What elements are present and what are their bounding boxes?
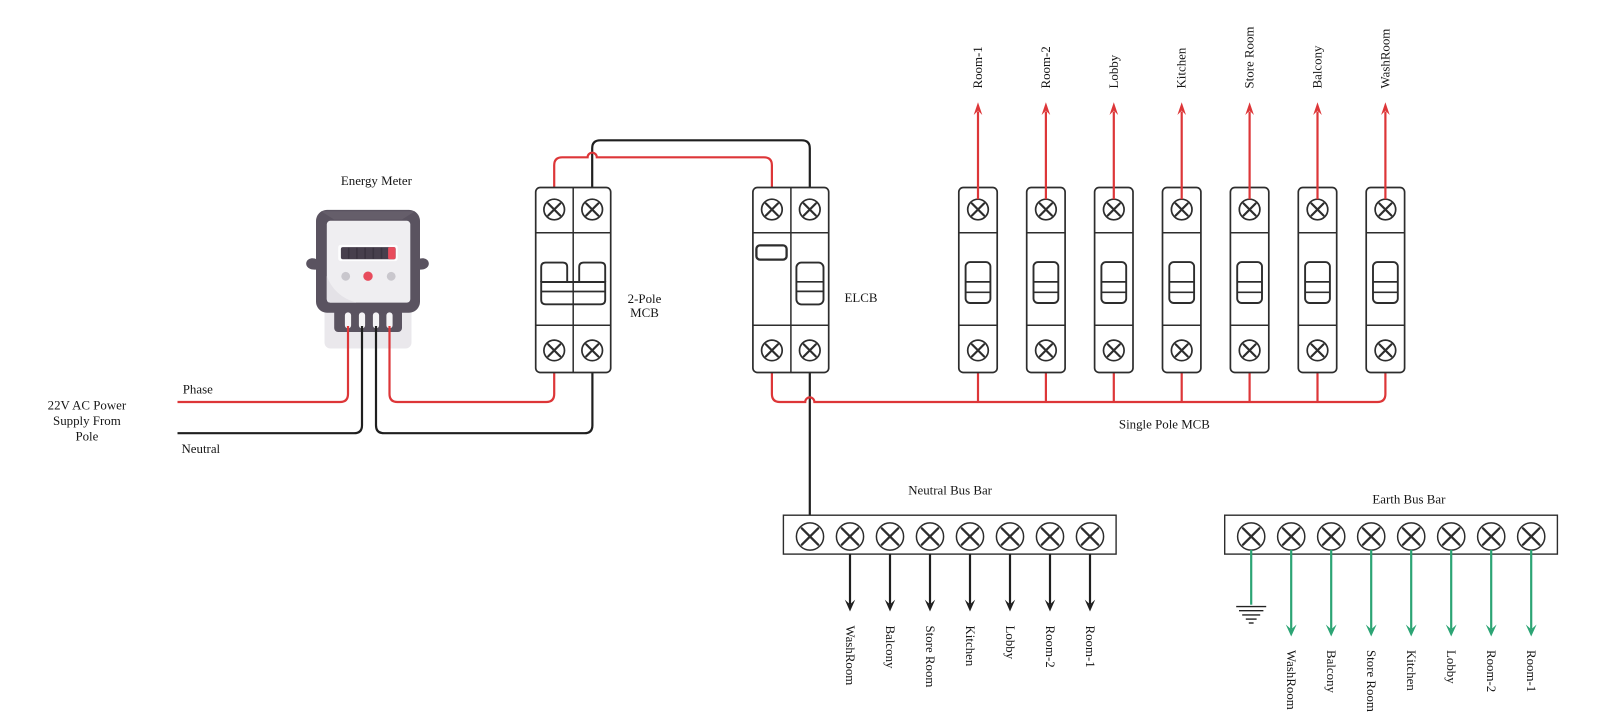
single pole MCB6 (Balcony) bbox=[1298, 188, 1336, 373]
label Neutral Bus Bar bbox=[908, 484, 992, 498]
svg-text:Balcony: Balcony bbox=[1311, 45, 1325, 89]
svg-text:Energy Meter: Energy Meter bbox=[341, 174, 413, 188]
svg-text:22V AC Power: 22V AC Power bbox=[48, 398, 127, 412]
earth bus terminal 8 bbox=[1518, 523, 1545, 550]
svg-text:Lobby: Lobby bbox=[1444, 650, 1458, 684]
label Phase bbox=[183, 382, 213, 396]
earth bus terminal 4 bbox=[1358, 523, 1385, 550]
neutral bus terminal 4 bbox=[916, 523, 943, 550]
neutral bus terminal 3 bbox=[876, 523, 903, 550]
label Earth Bus Bar bbox=[1372, 493, 1446, 507]
neutral bus terminal 2 bbox=[836, 523, 863, 550]
svg-text:Balcony: Balcony bbox=[1324, 650, 1338, 694]
neutral bus terminal 5 bbox=[956, 523, 983, 550]
wire riser phase to MCB5 bbox=[1248, 361, 1250, 403]
svg-text:Room-1: Room-1 bbox=[1524, 650, 1538, 692]
arrow to Room-1 bbox=[971, 46, 985, 199]
energy meter EM1 bbox=[306, 210, 429, 349]
neutral arrow to Balcony bbox=[883, 554, 897, 669]
arrow to Store Room bbox=[1243, 27, 1257, 200]
label Single Pole MCB bbox=[1119, 417, 1210, 431]
wire phase from pole bbox=[178, 326, 349, 402]
arrow to Lobby bbox=[1107, 54, 1121, 199]
svg-text:WashRoom: WashRoom bbox=[1378, 29, 1392, 89]
svg-text:Lobby: Lobby bbox=[1107, 54, 1121, 88]
ground symbol bbox=[1236, 607, 1266, 623]
neutral arrow to Room-2 bbox=[1043, 554, 1057, 668]
arrow to Room-2 bbox=[1039, 46, 1053, 199]
neutral arrow to Lobby bbox=[1003, 554, 1017, 660]
wire neutral ELCB to neutral bus bar bbox=[809, 361, 811, 523]
neutral bus bar bbox=[783, 515, 1116, 554]
earth arrow to Balcony bbox=[1324, 550, 1338, 694]
neutral arrow to WashRoom bbox=[843, 554, 857, 685]
earth arrow to WashRoom bbox=[1284, 550, 1298, 710]
wire riser phase to MCB3 bbox=[1113, 361, 1115, 403]
earth bus bar bbox=[1225, 515, 1558, 554]
2-pole MCB terminal screws bbox=[544, 199, 603, 361]
svg-text:Pole: Pole bbox=[75, 430, 98, 444]
earth bus terminal 1 bbox=[1238, 523, 1265, 550]
svg-text:Room-2: Room-2 bbox=[1484, 650, 1498, 692]
svg-text:Single Pole MCB: Single Pole MCB bbox=[1119, 417, 1210, 431]
svg-text:Room-2: Room-2 bbox=[1043, 626, 1057, 668]
svg-text:WashRoom: WashRoom bbox=[1284, 650, 1298, 710]
svg-text:Store Room: Store Room bbox=[1364, 650, 1378, 712]
ELCB test button bbox=[756, 245, 786, 259]
single pole MCB2 (Room-2) bbox=[1027, 188, 1065, 373]
wire phase bus ELCB to single pole MCBs (hop at ELCB neutral) bbox=[772, 361, 1386, 403]
wire riser phase to MCB2 bbox=[1045, 361, 1047, 403]
svg-text:WashRoom: WashRoom bbox=[843, 626, 857, 686]
svg-text:Phase: Phase bbox=[183, 382, 213, 396]
2-pole MCB CB1 bbox=[536, 188, 611, 373]
neutral arrow to Store Room bbox=[923, 554, 937, 687]
arrow to Kitchen bbox=[1175, 47, 1189, 199]
svg-text:Balcony: Balcony bbox=[883, 626, 897, 670]
wire riser phase to MCB4 bbox=[1181, 361, 1183, 403]
neutral arrow to Room-1 bbox=[1083, 554, 1097, 668]
neutral bus terminal 6 bbox=[996, 523, 1023, 550]
label 2-Pole MCB bbox=[628, 292, 662, 320]
svg-text:Store Room: Store Room bbox=[1243, 27, 1257, 89]
label Neutral bbox=[181, 442, 220, 456]
earth arrow to Room-2 bbox=[1484, 550, 1498, 692]
single pole MCB5 (Store Room) bbox=[1230, 188, 1268, 373]
earth bus terminal 6 bbox=[1438, 523, 1465, 550]
neutral bus terminal 8 bbox=[1076, 523, 1103, 550]
wire neutral 2-pole MCB to ELCB bbox=[592, 140, 810, 199]
svg-text:Neutral Bus Bar: Neutral Bus Bar bbox=[908, 484, 992, 498]
svg-text:Earth Bus Bar: Earth Bus Bar bbox=[1372, 493, 1446, 507]
earth bus terminal 3 bbox=[1318, 523, 1345, 550]
svg-text:Kitchen: Kitchen bbox=[1175, 47, 1189, 88]
earth arrow to Lobby bbox=[1444, 550, 1458, 684]
svg-text:Room-2: Room-2 bbox=[1039, 46, 1053, 88]
earth bus terminal 5 bbox=[1398, 523, 1425, 550]
label Energy Meter bbox=[341, 174, 413, 188]
neutral bus terminal 7 bbox=[1036, 523, 1063, 550]
svg-text:ELCB: ELCB bbox=[845, 291, 878, 305]
svg-text:Supply From: Supply From bbox=[53, 414, 121, 428]
earth arrow to Kitchen bbox=[1404, 550, 1418, 691]
arrow to WashRoom bbox=[1378, 29, 1392, 200]
svg-text:Kitchen: Kitchen bbox=[1404, 650, 1418, 691]
wire neutral meter to 2-pole MCB bbox=[376, 326, 592, 433]
svg-text:2-Pole: 2-Pole bbox=[628, 292, 662, 306]
earth arrow to Room-1 bbox=[1524, 550, 1538, 692]
single pole MCB7 (WashRoom) bbox=[1366, 188, 1404, 373]
label ELCB bbox=[845, 291, 878, 305]
svg-text:Room-1: Room-1 bbox=[1083, 626, 1097, 668]
ELCB terminal screws bbox=[762, 199, 820, 361]
wire phase 2-pole MCB to ELCB (hop over neutral) bbox=[554, 153, 772, 200]
svg-text:MCB: MCB bbox=[630, 306, 659, 320]
svg-text:Kitchen: Kitchen bbox=[963, 626, 977, 667]
earth bus terminal 7 bbox=[1478, 523, 1505, 550]
wire riser phase to MCB6 bbox=[1316, 361, 1318, 403]
earth bus terminal 2 bbox=[1278, 523, 1305, 550]
svg-text:Lobby: Lobby bbox=[1003, 626, 1017, 660]
neutral bus terminal 1 bbox=[796, 523, 823, 550]
single pole MCB4 (Kitchen) bbox=[1163, 188, 1201, 373]
single pole MCB1 (Room-1) bbox=[959, 188, 997, 373]
wire phase meter to 2-pole MCB bbox=[390, 326, 555, 402]
svg-text:Room-1: Room-1 bbox=[971, 46, 985, 88]
ELCB switch handle bbox=[796, 263, 823, 305]
arrow to Balcony bbox=[1311, 45, 1325, 199]
earth arrow to Store Room bbox=[1364, 550, 1378, 712]
label 22V AC Power Supply From Pole bbox=[48, 398, 127, 443]
neutral arrow to Kitchen bbox=[963, 554, 977, 667]
wire earth to ground bbox=[1250, 550, 1252, 605]
svg-text:Store Room: Store Room bbox=[923, 626, 937, 688]
svg-text:Neutral: Neutral bbox=[181, 442, 220, 456]
single pole MCB3 (Lobby) bbox=[1095, 188, 1133, 373]
2-pole MCB switch handle bbox=[541, 263, 605, 305]
wire neutral from pole bbox=[178, 326, 363, 433]
wire riser phase to MCB1 bbox=[977, 361, 979, 403]
ELCB CB2 bbox=[753, 188, 829, 373]
